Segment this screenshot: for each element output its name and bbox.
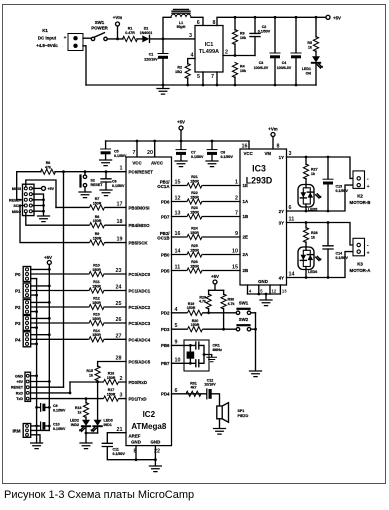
svg-text:12: 12 — [272, 289, 277, 294]
svg-text:15: 15 — [232, 265, 238, 271]
wire P4 signal / resistor R14 150R — [31, 338, 126, 340]
wire R6 left to ISP RESET pin — [17, 172, 41, 200]
svg-text:4: 4 — [175, 307, 178, 313]
svg-text:PC2/ADC2: PC2/ADC2 — [129, 305, 151, 310]
switch SW1 — [236, 301, 255, 315]
svg-text:2B: 2B — [243, 268, 249, 273]
svg-text:MOTOR-A: MOTOR-A — [350, 268, 372, 273]
ceramic resonator CR1 8MHz — [161, 339, 222, 371]
connector IRM — [12, 424, 49, 443]
svg-text:0.47R: 0.47R — [125, 31, 135, 35]
svg-text:150R: 150R — [92, 268, 101, 272]
svg-text:2: 2 — [235, 196, 238, 202]
svg-text:150R: 150R — [190, 179, 199, 183]
svg-text:10/16V: 10/16V — [204, 383, 216, 387]
svg-text:150R: 150R — [92, 317, 101, 321]
resistor R28 1k motor A — [305, 223, 307, 229]
svg-text:C2: C2 — [262, 25, 267, 29]
resistor R9 150R — [89, 232, 105, 245]
svg-text:+4.8~6Vdc: +4.8~6Vdc — [36, 43, 58, 48]
wire P2 signal / resistor R12 150R — [31, 306, 126, 308]
capacitor C5 0.1/50V — [100, 141, 127, 166]
svg-text:100/6.3V: 100/6.3V — [254, 66, 269, 70]
svg-text:PC5/ADC5: PC5/ADC5 — [129, 360, 151, 365]
svg-text:150R: 150R — [190, 210, 199, 214]
pin 4 wire and resistor R2 — [175, 53, 195, 86]
wire PD4 / resistor R31 4k7 — [172, 393, 207, 395]
IC2 pin 20 AVCC — [154, 141, 156, 157]
IC1 TL499A — [195, 26, 223, 73]
svg-text:150R: 150R — [92, 284, 101, 288]
speaker SP1 PIEZO — [214, 403, 249, 435]
svg-text:1k: 1k — [89, 373, 93, 377]
svg-text:IRM: IRM — [12, 428, 20, 433]
svg-text:150R: 150R — [92, 301, 101, 305]
svg-text:+5V: +5V — [333, 15, 341, 20]
svg-text:C7: C7 — [191, 151, 196, 155]
capacitor C4 100/6.3V — [277, 17, 301, 85]
svg-text:PB7: PB7 — [161, 361, 170, 366]
svg-text:0.1/50V: 0.1/50V — [113, 452, 126, 456]
svg-text:15: 15 — [175, 180, 181, 186]
svg-text:9: 9 — [175, 339, 178, 345]
pin 7 — [216, 72, 218, 85]
svg-text:150R: 150R — [107, 376, 116, 380]
svg-text:+5V: +5V — [177, 120, 185, 125]
svg-text:IC1: IC1 — [205, 42, 214, 48]
LED1 ON — [302, 56, 323, 85]
svg-text:C1: C1 — [149, 53, 154, 57]
svg-text:PD5: PD5 — [161, 268, 170, 273]
capacitor C6 0.1/50V — [100, 170, 125, 195]
svg-text:GND: GND — [258, 279, 268, 284]
svg-text:K2: K2 — [357, 194, 363, 199]
svg-text:150R: 150R — [93, 219, 102, 223]
svg-text:150R: 150R — [190, 195, 199, 199]
svg-text:IND2: IND2 — [71, 423, 79, 427]
serial wires — [31, 375, 37, 377]
svg-text:14: 14 — [175, 249, 181, 255]
wire 2Y to K2 — [287, 185, 354, 211]
svg-text:L293D: L293D — [246, 176, 272, 186]
svg-text:19: 19 — [117, 237, 123, 243]
switch ground vertical — [255, 313, 257, 371]
svg-text:PB3/MOSI: PB3/MOSI — [129, 205, 150, 210]
svg-text:IC3: IC3 — [252, 164, 266, 174]
LED6 bicolor motor A — [298, 247, 322, 278]
svg-text:RxD: RxD — [16, 391, 24, 395]
svg-text:1B: 1B — [243, 214, 249, 219]
svg-text:PD0/RxD: PD0/RxD — [129, 380, 148, 385]
svg-text:26: 26 — [116, 317, 122, 323]
svg-text:SP1: SP1 — [238, 409, 245, 413]
svg-text:PB5/SCK: PB5/SCK — [129, 241, 149, 246]
IC2 ground pins 8 and 22 — [135, 446, 137, 460]
svg-text:4: 4 — [191, 53, 194, 59]
terminal +5V for switches — [209, 274, 224, 290]
svg-text:7: 7 — [235, 211, 238, 217]
svg-text:S2: S2 — [91, 179, 95, 183]
svg-text:PC6/RESET: PC6/RESET — [129, 170, 154, 175]
svg-text:PB6: PB6 — [161, 343, 170, 348]
resistor R27 1k motor B — [305, 157, 307, 165]
wire RxD line / resistor R16 150R — [70, 381, 126, 383]
svg-text:2A: 2A — [243, 252, 249, 257]
capacitor C10 0.1/50V — [31, 422, 66, 431]
connector P3 — [15, 316, 51, 331]
svg-text:ON: ON — [306, 72, 312, 76]
svg-text:MOSI: MOSI — [12, 187, 21, 191]
ISP header K4 — [9, 184, 34, 215]
svg-text:28: 28 — [116, 356, 122, 362]
svg-text:1E: 1E — [243, 183, 248, 188]
resistor R3 10k — [232, 17, 246, 55]
resistor R5 1k — [307, 17, 318, 56]
LED common ground — [86, 432, 98, 434]
svg-text:-: - — [367, 244, 369, 250]
svg-text:4.7k: 4.7k — [199, 300, 206, 304]
svg-text:8: 8 — [134, 449, 137, 455]
terminal +Vm — [113, 15, 122, 40]
svg-text:PD4: PD4 — [161, 392, 170, 397]
switch SW1 POWER — [91, 20, 108, 41]
ground symbol GND bus — [31, 443, 43, 449]
resistor R8 150R — [89, 215, 105, 228]
svg-text:14: 14 — [289, 272, 295, 278]
svg-text:+: + — [367, 250, 370, 256]
capacitor C9 0.1/50V — [35, 404, 66, 413]
capacitor C12 10/16V — [204, 378, 219, 406]
wire junction up to L1 — [163, 17, 171, 39]
svg-text:TL499A: TL499A — [199, 49, 219, 55]
svg-text:C8: C8 — [221, 151, 226, 155]
wire 3Y to K3 — [287, 223, 354, 246]
svg-text:RESET: RESET — [11, 386, 24, 390]
svg-text:8: 8 — [213, 20, 216, 26]
svg-text:3: 3 — [289, 151, 292, 157]
svg-text:R4: R4 — [240, 65, 245, 69]
capacitor C3 100/6.3V — [254, 17, 280, 85]
svg-text:GND: GND — [15, 374, 23, 378]
svg-text:OC1B: OC1B — [157, 236, 169, 241]
ground symbol — [162, 85, 164, 88]
svg-text:+: + — [64, 35, 67, 40]
svg-text:TxD: TxD — [16, 397, 23, 401]
wire PB0 to 2A / resistor R25 150R — [172, 254, 241, 256]
capacitor C14 0.1/50V — [323, 223, 348, 278]
svg-text:GND: GND — [151, 440, 161, 445]
svg-text:P4: P4 — [15, 337, 21, 342]
wire D1 to IC1 pin3 — [151, 38, 196, 40]
svg-text:0.1/50V: 0.1/50V — [53, 427, 66, 431]
svg-text:4Y: 4Y — [279, 276, 284, 281]
wire IC2 pin 28 PC5/ADC5 — [98, 362, 126, 367]
wire 4Y to K3 — [287, 252, 354, 278]
resistor R15 1k — [86, 366, 100, 382]
svg-text:47k: 47k — [45, 165, 51, 169]
svg-text:150R: 150R — [190, 231, 199, 235]
svg-text:Рисунок 1-3 Схема платы MicroC: Рисунок 1-3 Схема платы MicroCamp — [4, 489, 194, 501]
connector P0 — [15, 267, 51, 282]
svg-text:0.1/50V: 0.1/50V — [191, 155, 204, 159]
svg-text:8MHz: 8MHz — [213, 348, 223, 352]
ISP +5V terminal — [32, 187, 41, 189]
capacitor C1 220/16V — [144, 39, 168, 85]
svg-text:9: 9 — [235, 231, 238, 237]
svg-text:0.1/50V: 0.1/50V — [221, 155, 234, 159]
svg-text:SW2: SW2 — [239, 317, 249, 322]
pin 5 — [202, 72, 204, 85]
svg-text:18: 18 — [117, 219, 123, 225]
svg-text:PD6: PD6 — [161, 199, 170, 204]
node Vin junction — [162, 38, 165, 41]
IC3 ground pins 4,5,12,13 — [248, 285, 288, 306]
svg-text:K3: K3 — [357, 261, 363, 266]
svg-text:ATMega8: ATMega8 — [131, 422, 167, 431]
IC2 ATMega8 box — [126, 157, 172, 446]
wire PD5 to 2B / resistor R26 150R — [172, 270, 241, 272]
wire ISP SCK down — [20, 206, 126, 243]
svg-text:AVCC: AVCC — [151, 161, 164, 166]
svg-text:23: 23 — [116, 268, 122, 274]
+5V rail over IC2 — [106, 140, 249, 142]
svg-text:16: 16 — [175, 231, 181, 237]
svg-text:PD1/TxD: PD1/TxD — [129, 397, 147, 402]
svg-text:IC2: IC2 — [143, 410, 156, 419]
svg-text:LED1: LED1 — [302, 67, 311, 71]
wire L1 to pin6 — [191, 17, 203, 25]
svg-text:C4: C4 — [282, 61, 287, 65]
connector K2 MOTOR-B — [350, 171, 371, 205]
svg-text:3Y: 3Y — [279, 221, 284, 226]
svg-text:7: 7 — [211, 74, 214, 80]
svg-text:VM: VM — [265, 151, 272, 156]
node reset junction to serial — [62, 170, 65, 173]
wire K1 bottom to ground rail — [83, 46, 86, 85]
svg-text:10k: 10k — [240, 36, 246, 40]
svg-text:C3: C3 — [259, 61, 264, 65]
svg-text:PB0: PB0 — [161, 252, 170, 257]
capacitor C2 0.1/50V — [250, 17, 271, 55]
wire PB1/OC1A to 1E / resistor R21 150R — [172, 185, 241, 187]
svg-text:LED6: LED6 — [308, 270, 317, 274]
svg-text:1Y: 1Y — [279, 155, 284, 160]
IC2 pin 7 VCC — [136, 141, 138, 157]
svg-text:SW1: SW1 — [95, 20, 105, 25]
svg-text:2: 2 — [225, 50, 228, 56]
wire ISP MOSI over box — [26, 180, 56, 207]
svg-text:7: 7 — [133, 150, 136, 156]
svg-text:LED5: LED5 — [308, 207, 317, 211]
svg-text:150R: 150R — [107, 393, 116, 397]
resistor R30 4.7k pullup SW2 — [223, 290, 225, 294]
svg-text:PC1/ADC1: PC1/ADC1 — [129, 289, 151, 294]
svg-text:13: 13 — [282, 289, 287, 294]
svg-text:K1: K1 — [42, 28, 48, 33]
svg-text:150R: 150R — [187, 306, 196, 310]
serial connector K5 — [11, 372, 30, 401]
ground rail of power section — [86, 84, 316, 86]
svg-text:P1: P1 — [15, 289, 21, 294]
svg-text:15Ω: 15Ω — [175, 70, 182, 74]
svg-text:+5V: +5V — [17, 380, 24, 384]
svg-text:150R: 150R — [190, 264, 199, 268]
svg-text:1A: 1A — [243, 199, 249, 204]
IC3 L293D box — [240, 149, 287, 285]
svg-text:25: 25 — [116, 301, 122, 307]
svg-text:4.7k: 4.7k — [228, 302, 235, 306]
svg-text:PC4/ADC4: PC4/ADC4 — [129, 337, 151, 342]
wire PD7 to 1B / resistor R23 150R — [172, 216, 241, 218]
wire PD6 to 1A / resistor R22 150R — [172, 201, 241, 203]
svg-text:13: 13 — [175, 211, 181, 217]
svg-text:P0: P0 — [15, 272, 21, 277]
wire 1Y to K2 — [287, 157, 354, 178]
svg-text:6: 6 — [289, 205, 292, 211]
svg-text:0.1/50V: 0.1/50V — [53, 408, 66, 412]
svg-text:6: 6 — [175, 388, 178, 394]
svg-text:1N4001: 1N4001 — [140, 31, 153, 35]
resistor R7 150R — [89, 197, 105, 210]
svg-text:1: 1 — [235, 180, 238, 186]
svg-text:150R: 150R — [92, 333, 101, 337]
svg-text:0.1/50V: 0.1/50V — [114, 154, 127, 158]
svg-text:20: 20 — [147, 150, 153, 156]
+5V bus vertical — [48, 265, 50, 431]
svg-text:10k: 10k — [240, 69, 246, 73]
svg-text:VCC: VCC — [244, 151, 254, 156]
svg-text:1: 1 — [120, 166, 123, 172]
svg-text:L1: L1 — [179, 21, 183, 25]
IC3 pin 16 VCC — [248, 141, 250, 149]
svg-text:POWER: POWER — [91, 26, 108, 31]
svg-text:2: 2 — [120, 376, 123, 382]
svg-text:10: 10 — [175, 357, 181, 363]
svg-text:150R: 150R — [191, 323, 200, 327]
svg-text:2E: 2E — [243, 235, 248, 240]
svg-text:R3: R3 — [240, 32, 245, 36]
wire TxD line / resistor R17 150R — [31, 398, 127, 400]
svg-text:R5: R5 — [307, 41, 312, 45]
svg-text:11: 11 — [289, 217, 295, 223]
svg-text:3: 3 — [120, 393, 123, 399]
resistor R1 0.47R — [123, 27, 138, 42]
svg-text:5: 5 — [197, 74, 200, 80]
wire P0 signal / resistor R10 150R — [31, 273, 126, 275]
terminal +5V mid — [177, 120, 185, 142]
capacitor C8 0.1/50V — [206, 141, 233, 167]
wire MOSI to R7 — [56, 206, 126, 208]
rail junction dots on +5V rail — [234, 16, 237, 19]
svg-text:+Vm: +Vm — [268, 127, 277, 132]
wire AREF pin 21 + capacitor C11 — [102, 427, 140, 460]
pin 8 to +5V rail — [217, 17, 328, 25]
switch S2 RESET — [79, 170, 103, 197]
pin 2 feedback wire — [223, 55, 255, 57]
wire PD3 to SW2 / resistor R20 150R — [172, 328, 237, 330]
svg-text:PD2: PD2 — [161, 311, 170, 316]
svg-text:OC1A: OC1A — [157, 184, 170, 189]
wire K1 to SW1 — [83, 37, 91, 39]
capacitor C13 0.1/50V — [323, 157, 348, 211]
svg-text:10: 10 — [232, 249, 238, 255]
svg-text:R2: R2 — [177, 66, 182, 70]
svg-text:150R: 150R — [93, 237, 102, 241]
svg-text:MOTOR-B: MOTOR-B — [350, 200, 371, 205]
svg-text:D1: D1 — [144, 27, 149, 31]
resistor R29 4.7k pullup SW1 — [208, 290, 210, 294]
svg-text:50µH: 50µH — [177, 25, 186, 29]
svg-text:24: 24 — [116, 285, 122, 291]
svg-text:DC input: DC input — [38, 36, 57, 41]
svg-text:1k: 1k — [78, 410, 82, 414]
svg-text:C5: C5 — [114, 150, 119, 154]
wire PD2 to SW1 / resistor R19 150R — [172, 312, 237, 314]
svg-text:1k: 1k — [308, 46, 312, 50]
svg-text:11: 11 — [175, 265, 181, 271]
svg-text:+5V: +5V — [48, 187, 55, 191]
svg-text:150R: 150R — [190, 248, 199, 252]
svg-text:RESET: RESET — [9, 198, 22, 202]
resistor R6 47k — [41, 161, 56, 174]
svg-text:22: 22 — [154, 449, 160, 455]
inductor L1 50µH — [171, 9, 191, 29]
svg-text:P3: P3 — [15, 321, 21, 326]
svg-text:PD7: PD7 — [161, 214, 170, 219]
svg-text:0.1/50V: 0.1/50V — [112, 184, 125, 188]
LED5 bicolor motor B — [298, 185, 322, 212]
connector P1 — [15, 283, 51, 298]
diode D1 1N4001 — [137, 27, 152, 43]
svg-text:1k: 1k — [311, 235, 315, 239]
svg-text:AREF: AREF — [129, 433, 141, 438]
svg-text:+5V: +5V — [211, 274, 219, 279]
wire P3 signal / resistor R13 150R — [31, 322, 126, 324]
connector K3 MOTOR-A — [350, 238, 372, 272]
svg-text:-: - — [367, 177, 369, 183]
switch SW2 — [236, 317, 255, 331]
svg-text:0.1/50V: 0.1/50V — [336, 189, 349, 193]
svg-text:PC3/ADC3: PC3/ADC3 — [129, 321, 151, 326]
capacitor C7 0.1/50V — [175, 141, 204, 167]
svg-text:150R: 150R — [93, 201, 102, 205]
svg-text:21: 21 — [117, 427, 123, 433]
wire reset vertical to serial connector — [63, 172, 65, 388]
LED2 IND2 — [70, 419, 90, 434]
svg-text:5: 5 — [175, 323, 178, 329]
wire P1 signal / resistor R11 150R — [31, 290, 126, 292]
terminal +5V out — [326, 15, 330, 19]
svg-text:R1: R1 — [128, 27, 133, 31]
svg-text:C6: C6 — [112, 180, 117, 184]
svg-text:2Y: 2Y — [279, 209, 284, 214]
svg-text:+: + — [367, 184, 370, 190]
svg-text:0.1/50V: 0.1/50V — [258, 30, 271, 34]
LED3 IND1 — [91, 382, 113, 433]
wire R6 to IC2 pin1 PC6/RESET — [55, 171, 126, 173]
GND bus vertical — [36, 279, 38, 443]
connector K1 DC input — [36, 28, 83, 51]
svg-text:PC0/ADC0: PC0/ADC0 — [129, 272, 151, 277]
connector P2 — [15, 300, 51, 315]
ISP ground pins — [32, 194, 43, 215]
wire PB2/OC1B to 2E / resistor R24 150R — [172, 236, 241, 238]
svg-text:PD3: PD3 — [161, 327, 170, 332]
svg-text:VCC: VCC — [132, 161, 142, 166]
svg-text:P2: P2 — [15, 305, 21, 310]
svg-text:1k: 1k — [311, 172, 315, 176]
svg-text:GND: GND — [131, 440, 141, 445]
